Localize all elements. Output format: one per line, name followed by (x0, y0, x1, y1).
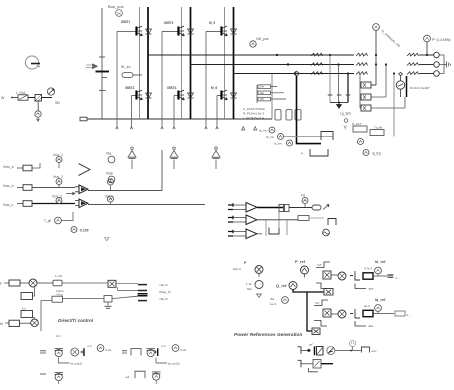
multiplier X3 (323, 309, 331, 317)
inductor Lc2 (356, 72, 367, 75)
limiter box lower (395, 311, 405, 316)
svg-text:Q_ref: Q_ref (276, 283, 287, 288)
probe Va circle on A2 (105, 179, 114, 199)
block Tq_filt (370, 126, 384, 136)
capacitor plates bank (328, 94, 351, 96)
probe Vsrc3 (52, 192, 75, 203)
wire measurement output (284, 136, 333, 138)
svg-text:Vsrc_c: Vsrc_c (3, 203, 14, 207)
svg-text:M_5: M_5 (209, 21, 215, 25)
bracket Vd upper (316, 262, 330, 268)
svg-text:w4: w4 (126, 375, 130, 379)
node phase C junction (294, 72, 296, 74)
wire phase A (148, 54, 354, 56)
svg-text:<5e-3>: <5e-3> (159, 297, 169, 301)
svg-text:Iq_f(1): Iq_f(1) (372, 152, 381, 156)
mixer row C circle (20, 319, 39, 327)
svg-text:Vta: Vta (106, 152, 111, 156)
svg-text:P_ref: P_ref (295, 259, 306, 264)
probe P* circle (424, 35, 451, 42)
inductor Lb1 (311, 63, 322, 66)
wire circulating probe drop (371, 30, 376, 85)
node diamond (307, 349, 310, 352)
wire sense left drop (360, 74, 361, 109)
svg-text:wt_pu(2): wt_pu(2) (168, 362, 180, 366)
source circle with arrow (47, 88, 60, 105)
IGBT leg 1 collector rail (147, 7, 149, 119)
grid sense box 2 (361, 94, 371, 100)
transistor IGBT6 (211, 86, 237, 100)
svg-text:Bus_pos: Bus_pos (108, 4, 124, 9)
svg-text:Vd: Vd (301, 194, 305, 198)
node (350, 350, 352, 352)
port Vsrc_c (3, 201, 75, 207)
block R_FILT (352, 122, 367, 132)
wire row1 (335, 350, 361, 352)
capacitor bank drop phase C (347, 74, 349, 103)
wire A3 out (88, 204, 205, 206)
gain block bold row1 (315, 346, 324, 355)
svg-text:wt_pu(1): wt_pu(1) (71, 362, 83, 366)
svg-text:Vq*: Vq* (315, 301, 320, 305)
inductor Lb2 (356, 63, 367, 66)
battery V_dc (96, 57, 110, 91)
svg-text:Ic_inv: Ic_inv (274, 142, 282, 146)
terminal A (434, 52, 440, 58)
capacitor bank drop phase A (329, 55, 331, 103)
probe circle filt1 (358, 139, 364, 145)
wire bottom DC bus (87, 118, 272, 120)
svg-text:Power References Generation: Power References Generation (234, 332, 302, 338)
wire branch verticals (279, 208, 287, 236)
scope bar 4 (138, 300, 147, 302)
svg-text:Vdf_pos: Vdf_pos (256, 37, 269, 41)
node cap bank gnd (338, 102, 340, 104)
port F clock (0, 280, 20, 286)
wire rowB continue (112, 296, 138, 298)
wire vertical stub (265, 220, 267, 236)
probe tSL circle (270, 297, 288, 306)
grid sense box 1 (361, 82, 371, 88)
svg-text:tSL: tSL (270, 297, 275, 301)
block 1/(Ms+1) (52, 289, 64, 302)
block sample rowB (104, 296, 112, 302)
svg-text:Vd*: Vd* (317, 263, 322, 267)
node (385, 63, 387, 65)
text scope labels (159, 283, 171, 301)
Y junction symbol (344, 119, 348, 123)
svg-text:aba: aba (369, 287, 374, 291)
wire row B (63, 298, 105, 300)
svg-text:IGBT1: IGBT1 (121, 20, 131, 24)
node (375, 54, 377, 56)
svg-text:<2e-3>: <2e-3> (159, 283, 169, 287)
wire U1 out thick (257, 207, 283, 209)
scope bar 1 (138, 284, 147, 286)
resistor RL_inv leg1 (121, 65, 142, 77)
svg-text:Vsrc_a: Vsrc_a (3, 165, 14, 169)
svg-text:RL_inv: RL_inv (121, 65, 131, 69)
svg-text:2→: 2→ (407, 313, 412, 317)
svg-text:1/z ↓: 1/z ↓ (56, 334, 63, 338)
svg-text:(Step_b): (Step_b) (159, 290, 171, 294)
probe Vsrc2 (53, 175, 63, 188)
svg-text:Vsrc_b: Vsrc_b (3, 184, 14, 188)
probe theta circle (44, 212, 73, 224)
wire bold row2 (321, 363, 333, 365)
bracket below PI lower (355, 321, 366, 326)
scope bar 2 (138, 290, 147, 292)
capacitor C_film3 (295, 110, 301, 121)
capacitor bank drop phase B (338, 65, 340, 103)
bracket before PI upper (350, 271, 360, 280)
dashed sum circle row1 (350, 341, 356, 351)
text film capacitor parameters (243, 107, 265, 120)
gate driver triangle leg2 (170, 147, 178, 169)
block X clock (108, 280, 116, 287)
wire sense box3 out (371, 97, 405, 108)
ground arrow cap bank (337, 103, 342, 109)
svg-text:Ib_inv: Ib_inv (266, 135, 275, 139)
probe Ib_inv (266, 134, 284, 140)
svg-text:60s: 60s (247, 287, 252, 291)
arrow after capsule (323, 205, 329, 210)
svg-text:0.100: 0.100 (80, 229, 89, 233)
summer circle lower (331, 310, 346, 318)
node phase B junction (287, 63, 289, 65)
node (426, 54, 428, 56)
wire to scopes (116, 283, 138, 290)
amplifier U3 (228, 229, 262, 239)
source Q_ref (276, 282, 297, 290)
wire M box to trunk (41, 301, 52, 332)
probe Vdc_mes circle (250, 37, 269, 47)
svg-text:R=ch1=-5e007: R=ch1=-5e007 (410, 86, 430, 90)
block 1-z2 (53, 274, 63, 286)
wire to output terminals (419, 55, 434, 74)
discrete block w3 (40, 372, 63, 384)
wire U2 out (257, 219, 298, 221)
wire cap bank bottom bar (330, 102, 348, 104)
wire gate vertical leg1 upper (116, 32, 118, 130)
transistor IGBT4 (167, 86, 194, 100)
discrete block w1 (40, 344, 112, 366)
capacitor bank small boxes (257, 85, 286, 103)
svg-text:IGBT2: IGBT2 (125, 86, 135, 90)
svg-text:W: W (1, 96, 5, 100)
node diamond junction phase C (294, 71, 300, 76)
svg-text:4.7e-3: 4.7e-3 (364, 267, 372, 271)
transistor IGBT5 (206, 21, 237, 36)
probe Iq_ref circle (375, 305, 382, 314)
limiter dashes upper (388, 275, 394, 278)
wire sense box2 out (371, 65, 386, 98)
wire PI out upper (373, 275, 393, 277)
mixer P circle (255, 266, 263, 278)
wire P* drop (426, 42, 428, 55)
svg-text:M: M (0, 322, 3, 326)
svg-text:Tq_filt: Tq_filt (374, 126, 382, 130)
IGBT leg 3 collector rail (233, 7, 235, 119)
node arrow pair right of bridge (242, 127, 257, 130)
wire A2 out with corner up (88, 150, 162, 191)
source S circle snubber (396, 72, 404, 97)
node cap bank B (337, 63, 339, 65)
svg-text:e-3: e-3 (162, 344, 166, 348)
wire clock long (62, 282, 108, 284)
inductor Lc1 (311, 72, 322, 75)
node bus_neg left terminal (80, 117, 87, 121)
bracket lower upper-group (316, 283, 327, 289)
svg-text:ed=: ed= (372, 349, 377, 353)
wire thick measurement drop (297, 76, 322, 144)
bottom right row2: port eq (298, 360, 302, 367)
svg-text:M_6: M_6 (211, 86, 217, 90)
wire gate vertical leg2 lower (173, 96, 175, 130)
svg-text:Iq_ref: Iq_ref (375, 298, 386, 302)
wire gate vertical leg1 lower (130, 96, 132, 130)
IGBT leg 2 collector rail (190, 7, 192, 119)
wire down trunk (307, 292, 312, 331)
node Bus_pos (108, 4, 124, 16)
probe Iq_f circle (363, 150, 381, 156)
svg-text:1.1k: 1.1k (246, 282, 252, 286)
discrete block w4 (126, 371, 161, 384)
svg-text:Id_ref: Id_ref (375, 260, 386, 264)
block sample pair (279, 205, 289, 212)
terminal C (434, 71, 440, 77)
bracket row1 end (362, 347, 370, 353)
block q filter rect (298, 216, 309, 221)
svg-text:I1_measure_ckt: I1_measure_ckt (380, 29, 401, 48)
text P input (233, 261, 247, 271)
mixer clock circle (20, 279, 37, 287)
node (393, 72, 395, 74)
text capacitor values (260, 85, 265, 102)
wire companion column leg3 (224, 7, 226, 119)
bracket top-right (328, 219, 336, 226)
multiplier X1 (323, 271, 331, 279)
probe Ia_inv (259, 127, 275, 133)
transformer block left (35, 95, 52, 102)
capacitor C_film2 (286, 110, 292, 121)
scope bar 3 (138, 294, 148, 296)
svg-text:1→: 1→ (396, 276, 401, 280)
terminal B (434, 62, 440, 68)
probe Ic_inv (274, 140, 293, 146)
svg-text:2e-3: 2e-3 (364, 304, 370, 308)
block 1/z row C (21, 307, 35, 319)
resistor RL left network (1, 91, 35, 100)
ground node G circle top-left (25, 56, 40, 69)
svg-text:R_FILT: R_FILT (352, 122, 362, 126)
wire (301, 363, 313, 365)
block PI lower bold (363, 310, 373, 316)
svg-text:10n: 10n (260, 97, 265, 101)
capacitor C_film1 (275, 110, 281, 121)
port Vsrc_b (3, 184, 75, 190)
node phase A junction (276, 54, 278, 56)
svg-text:IGBT4: IGBT4 (167, 86, 177, 90)
bottom right row1: port ed (298, 347, 302, 354)
svg-text:Vtab: Vtab (106, 172, 113, 176)
probe Vtb circle (106, 172, 115, 183)
svg-text:e-3: e-3 (88, 344, 92, 348)
svg-text:ed*: ed* (309, 343, 314, 347)
arrow pointing at battery (86, 64, 98, 69)
svg-text:Direct/Ti control: Direct/Ti control (58, 318, 94, 323)
svg-text:Y: Y (344, 126, 348, 132)
port Vsrc_a (3, 163, 40, 171)
transistor IGBT3 (162, 21, 194, 36)
svg-text:0.2e: 0.2e (106, 348, 112, 352)
svg-text:a: a (301, 151, 303, 155)
wire gate vertical leg3 lower (216, 96, 218, 130)
probe Id_ref circle (375, 267, 382, 276)
mixer circle row1 (327, 347, 335, 355)
wire PI out lower (373, 313, 394, 315)
multiplier X4 (312, 328, 320, 335)
wire terminals to ground (439, 55, 444, 74)
svg-text:W2: W2 (55, 101, 60, 105)
wire (301, 349, 307, 351)
bracket below PI upper (355, 284, 366, 289)
svg-text:1-z²/2: 1-z²/2 (55, 274, 63, 278)
amplifier U1 abc-dq (228, 203, 257, 213)
wire phase B (191, 64, 355, 66)
wire DC link left vertical (101, 8, 103, 119)
wire cap bank drop (271, 74, 273, 120)
buffer A1 outline (79, 164, 91, 176)
svg-text:1e-3: 1e-3 (270, 302, 276, 306)
svg-text:24n: 24n (260, 85, 265, 89)
gate driver triangle leg3 (212, 147, 220, 169)
block row2 (313, 360, 321, 369)
amplifier U2 (228, 215, 257, 225)
inductor La2 (356, 53, 367, 56)
probe Vsrc1 (53, 153, 63, 168)
probe circulating current circle (373, 24, 401, 48)
svg-text:T_pll: T_pll (44, 219, 51, 223)
ground grid (444, 62, 451, 68)
buffer A3 (75, 199, 88, 208)
block Vd filter capsule (312, 205, 321, 210)
arrow down small (257, 294, 262, 297)
snubber thick bar (406, 76, 408, 97)
probe Vb circle on A3 (108, 196, 114, 205)
inductor La1 (311, 53, 322, 56)
inductor La3 (407, 53, 418, 56)
svg-text:C_FILM=3*60uF: C_FILM=3*60uF (243, 107, 265, 111)
port M row C (0, 320, 20, 326)
capacitor to ground rowB (105, 302, 112, 308)
wire to Vd filter (289, 207, 312, 209)
wire gate vertical leg2 upper (161, 32, 163, 130)
bracket below row2 (309, 368, 319, 372)
probe freq circle (71, 227, 89, 233)
wire long measure drop (393, 74, 395, 137)
svg-text:10e-3: 10e-3 (233, 267, 241, 271)
buffer A2 (75, 185, 88, 194)
node cap bank C (347, 72, 349, 74)
node cap bank A (329, 54, 331, 56)
inductor Lc3 (407, 72, 418, 75)
svg-text:R_FILM=1.5e-3: R_FILM=1.5e-3 (243, 112, 264, 116)
wire q out (309, 217, 324, 219)
probe Vta circle (106, 152, 115, 163)
svg-text:aba: aba (369, 324, 374, 328)
discrete block w2 (122, 344, 187, 366)
bracket below lower group (314, 321, 327, 327)
wire Q_ref thick (293, 290, 324, 293)
svg-text:IGBT3: IGBT3 (164, 21, 174, 25)
filter chain right: bracket resistor (321, 132, 333, 141)
block PI upper bold (363, 273, 373, 279)
svg-text:P* (1.5 MW): P* (1.5 MW) (432, 38, 450, 42)
svg-text:0.2e: 0.2e (181, 348, 187, 352)
svg-text:F: F (0, 282, 2, 286)
inductor Lb3 (407, 63, 418, 66)
bracket u-shape (269, 228, 279, 235)
block M gain (21, 287, 35, 299)
svg-text:10n: 10n (260, 91, 265, 95)
source P_ref (295, 259, 309, 278)
multiplier X2 wide (324, 289, 333, 296)
svg-text:Ia_inv: Ia_inv (259, 129, 268, 133)
grid sense box 3 (361, 105, 371, 111)
transistor IGBT1 (117, 20, 152, 36)
svg-text:L_FILM=5e-8 H: L_FILM=5e-8 H (243, 116, 264, 120)
wire clock (37, 282, 53, 284)
transistor IGBT2 (125, 86, 152, 100)
gate driver triangle leg1 (128, 147, 136, 169)
ground marker below (105, 238, 110, 241)
summer circle upper (331, 272, 346, 280)
wire gate vertical leg3 upper (205, 32, 207, 130)
wire companion column leg2 (181, 7, 183, 119)
wire phase C (234, 73, 355, 75)
bracket Vq lower group (314, 300, 328, 306)
node (375, 63, 377, 65)
wire companion column leg1 (139, 7, 141, 119)
bracket before PI lower (350, 309, 360, 318)
svg-text:Lg_3ph: Lg_3ph (340, 112, 351, 116)
measure circle below left network (35, 101, 41, 121)
svg-text:P: P (244, 261, 247, 265)
probe 1.1k circle (246, 281, 263, 292)
source sine circle (323, 229, 330, 236)
probe Vd circle (301, 194, 308, 208)
